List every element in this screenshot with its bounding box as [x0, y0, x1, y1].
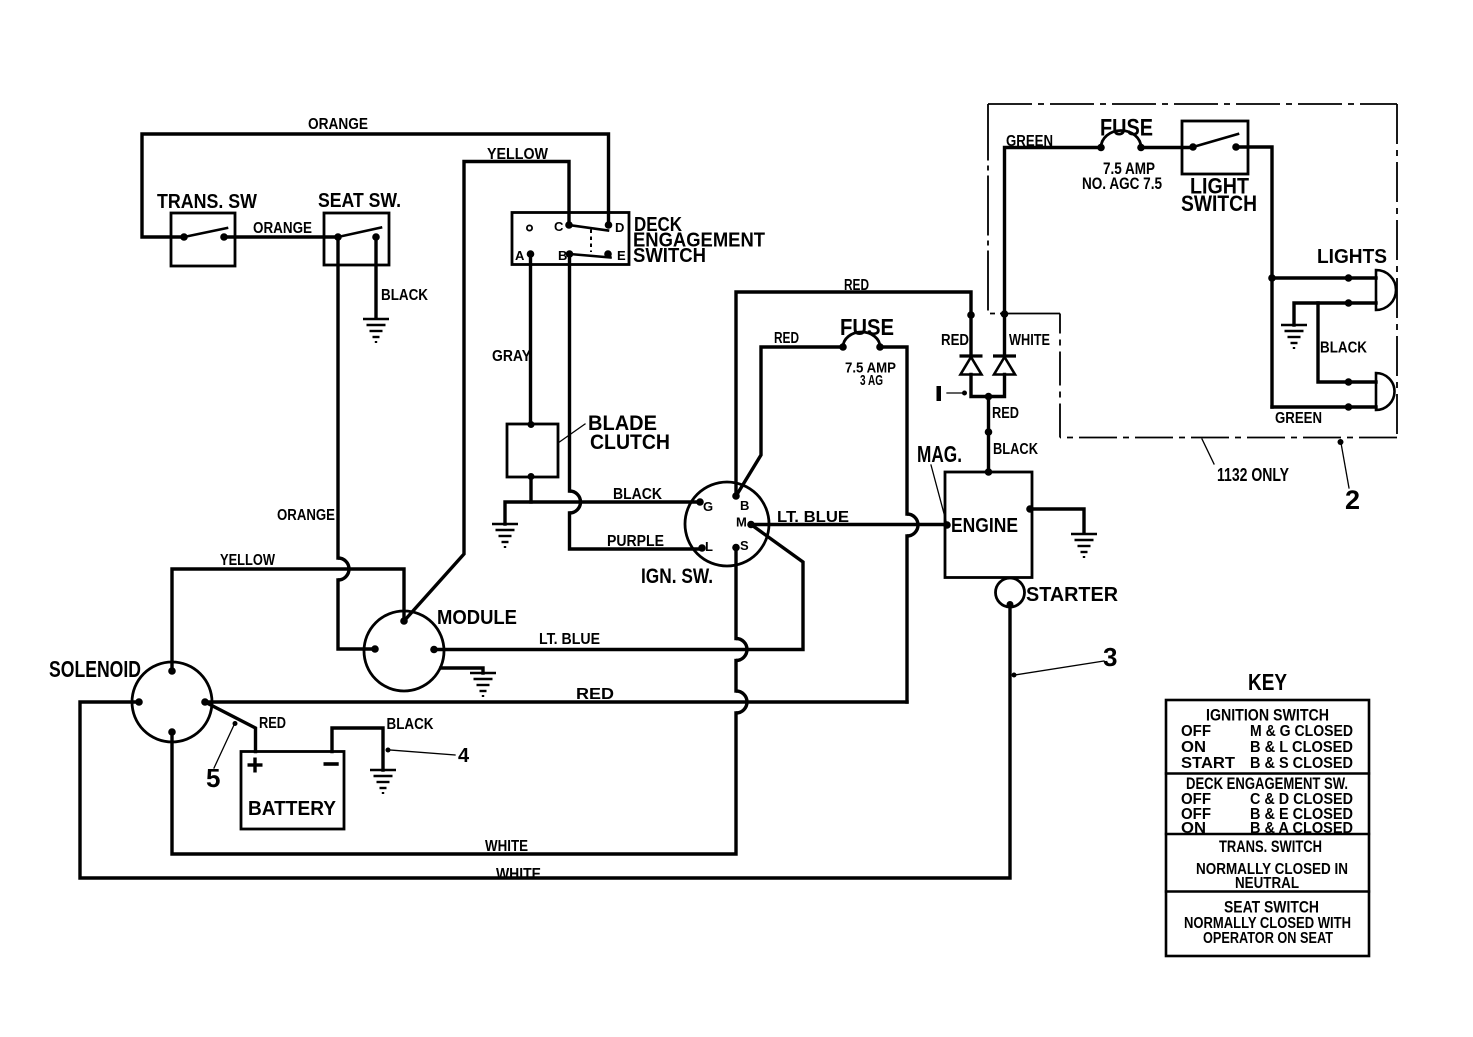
wire LT. BLUE (module right to ign M via corner) [434, 525, 803, 650]
solenoid terminal dots [168, 667, 176, 675]
svg-text:4: 4 [458, 745, 470, 767]
svg-text:BLACK: BLACK [993, 441, 1038, 458]
svg-text:RED: RED [774, 330, 799, 347]
battery minus sign [324, 762, 339, 766]
svg-text:S: S [740, 538, 749, 553]
svg-text:GRAY: GRAY [492, 348, 531, 365]
wire LT. BLUE (ign M to engine) [751, 523, 945, 526]
trans switch terminal dots [180, 233, 188, 241]
wire ORANGE top (deck D to trans switch) [142, 134, 609, 237]
switch TRANS. SW box [171, 213, 235, 266]
svg-text:SWITCH: SWITCH [1181, 191, 1257, 216]
svg-text:M & G CLOSED: M & G CLOSED [1250, 723, 1353, 740]
lamp 2 (headlight) [1376, 373, 1395, 410]
ground (battery) [370, 770, 396, 793]
pointer I with leader [937, 386, 942, 401]
junction dot green/white at boundary [1001, 310, 1009, 318]
ground (blade clutch) [492, 524, 518, 547]
ground (engine) [1071, 534, 1097, 557]
wire fuse right lead down to red feed wire [880, 347, 907, 514]
svg-text:YELLOW: YELLOW [220, 552, 276, 569]
wire diode outputs joined [971, 375, 1005, 397]
svg-text:BLACK: BLACK [387, 716, 434, 733]
svg-text:STARTER: STARTER [1026, 584, 1119, 606]
switch DECK ENGAGEMENT SWITCH box [512, 213, 629, 265]
light switch arm [1193, 134, 1238, 147]
deck switch arm B-E [570, 254, 611, 258]
ignition switch circle [685, 482, 769, 566]
module ground wire [441, 668, 483, 673]
svg-text:B: B [558, 248, 567, 263]
ground (module) [470, 673, 496, 696]
dash-dot boundary box 1132 ONLY [988, 103, 1397, 105]
seat switch terminal dots [334, 233, 342, 241]
svg-text:WHITE: WHITE [496, 866, 541, 883]
svg-text:M: M [736, 515, 747, 530]
blade clutch box [507, 424, 558, 477]
svg-text:RED: RED [259, 715, 286, 732]
engine ground wire [1032, 509, 1084, 533]
svg-text:LT. BLUE: LT. BLUE [777, 509, 849, 526]
svg-text:LT. BLUE: LT. BLUE [539, 631, 600, 648]
svg-text:MODULE: MODULE [437, 607, 517, 629]
svg-text:SWITCH: SWITCH [633, 245, 706, 267]
svg-text:YELLOW: YELLOW [487, 146, 549, 163]
svg-text:B & S CLOSED: B & S CLOSED [1250, 755, 1353, 772]
svg-text:WHITE: WHITE [485, 838, 528, 855]
svg-text:SOLENOID: SOLENOID [49, 656, 141, 682]
wire YELLOW (solenoid top to module top) [172, 569, 404, 671]
ign switch terminal dots G B M L S [696, 498, 704, 506]
lamp 1 (headlight) [1376, 270, 1396, 310]
svg-text:SEAT SWITCH: SEAT SWITCH [1224, 898, 1319, 917]
junction dot on red diode wire [967, 311, 975, 319]
wire GRAY (deck A to blade clutch) [529, 254, 532, 424]
svg-text:BATTERY: BATTERY [248, 798, 337, 820]
svg-text:START: START [1181, 755, 1235, 772]
battery box [241, 752, 344, 830]
light switch box [1182, 121, 1248, 174]
svg-text:TRANS. SW: TRANS. SW [157, 191, 257, 213]
svg-text:ORANGE: ORANGE [308, 116, 368, 133]
wire light switch to lights junction [1236, 147, 1272, 407]
svg-text:FUSE: FUSE [1100, 115, 1153, 142]
ground (seat switch) [363, 319, 389, 342]
wire lights ground branch [1294, 303, 1318, 325]
svg-text:TRANS. SWITCH: TRANS. SWITCH [1219, 837, 1322, 856]
svg-text:3 AG: 3 AG [860, 372, 883, 389]
key table box [1166, 700, 1369, 956]
starter circle [996, 578, 1025, 607]
engine box [945, 472, 1032, 578]
wire BLACK (ign G to ground) [505, 502, 700, 524]
svg-text:B & L CLOSED: B & L CLOSED [1250, 739, 1353, 756]
junction dot diode output [985, 393, 993, 401]
svg-text:GREEN: GREEN [1275, 410, 1322, 427]
svg-text:ENGINE: ENGINE [951, 515, 1018, 537]
svg-text:B & A CLOSED: B & A CLOSED [1250, 820, 1353, 837]
solenoid circle [132, 662, 212, 742]
fuse 7.5A 3AG symbol [843, 332, 880, 347]
wire fuse left lead to ign B (diagonal) [736, 347, 843, 496]
wire fuse to light switch [1141, 146, 1193, 149]
svg-text:RED: RED [941, 332, 969, 349]
module terminal dots [400, 617, 408, 625]
svg-text:3: 3 [1103, 642, 1117, 672]
wire RED (solenoid to fuse feed) [205, 700, 907, 703]
seat switch arm [338, 228, 381, 238]
deck switch arm C-D [569, 225, 608, 231]
key table row separators [1166, 772, 1369, 774]
svg-text:CLUTCH: CLUTCH [590, 431, 670, 454]
svg-text:5: 5 [206, 763, 220, 793]
junction dot red-black [985, 428, 993, 436]
svg-text:MAG.: MAG. [917, 441, 962, 467]
leader line to blade clutch [558, 424, 585, 443]
wire BLACK seat switch to ground [374, 237, 377, 318]
wire ORANGE (seat switch down to module left) with hop over yellow [336, 237, 339, 558]
engine terminal dots [985, 468, 993, 476]
svg-text:C: C [554, 219, 564, 234]
svg-text:G: G [703, 499, 713, 514]
module circle [364, 611, 444, 691]
svg-text:ORANGE: ORANGE [253, 220, 312, 237]
junction dot lights feed [1268, 274, 1276, 282]
svg-text:WHITE: WHITE [1009, 332, 1050, 349]
blade clutch terminal dots [528, 421, 535, 428]
svg-text:LIGHTS: LIGHTS [1317, 246, 1387, 268]
wire RED/BLACK down to engine mag [987, 397, 990, 473]
svg-text:PURPLE: PURPLE [607, 533, 664, 550]
svg-text:RED: RED [992, 405, 1019, 422]
svg-text:E: E [617, 248, 626, 263]
svg-text:A: A [515, 248, 525, 263]
wire PURPLE (deck B down to ign switch L) with hop over black wire [568, 254, 571, 491]
deck switch dashed mechanical link [590, 230, 592, 253]
wire blade clutch bottom stub [529, 477, 532, 503]
wire RED (ign B up and over to diodes) [736, 292, 971, 496]
svg-text:2: 2 [1345, 485, 1360, 515]
switch SEAT SW box [324, 213, 389, 265]
diode RED [960, 356, 983, 375]
trans switch arm [184, 228, 227, 237]
svg-text:OPERATOR ON SEAT: OPERATOR ON SEAT [1203, 930, 1333, 947]
svg-text:IGN. SW.: IGN. SW. [641, 565, 713, 588]
wire solenoid to battery plus (diagonal) [205, 702, 256, 752]
svg-text:BLACK: BLACK [381, 287, 428, 304]
light switch terminal dots [1189, 143, 1197, 151]
deck switch terminal dots C D A B E [565, 221, 573, 229]
svg-text:FUSE: FUSE [840, 314, 894, 340]
svg-text:RED: RED [576, 686, 614, 703]
ground (lights) [1281, 325, 1307, 348]
wire GREEN lamp 2 bottom [1272, 405, 1376, 408]
svg-text:NO. AGC 7.5: NO. AGC 7.5 [1082, 174, 1162, 193]
wire ORANGE (trans to seat switch) [224, 235, 338, 238]
svg-text:RED: RED [844, 277, 869, 294]
wire to lamp 1 top [1272, 276, 1376, 279]
wire WHITE (starter down, around bottom to solenoid) [80, 605, 1010, 878]
svg-text:IGNITION SWITCH: IGNITION SWITCH [1206, 706, 1329, 725]
svg-text:1132 ONLY: 1132 ONLY [1217, 465, 1289, 485]
deck switch unused terminal (small circle) [527, 225, 532, 230]
svg-text:ON: ON [1181, 739, 1206, 756]
svg-text:ORANGE: ORANGE [277, 507, 335, 524]
svg-text:ON: ON [1181, 820, 1206, 837]
battery plus sign [248, 758, 263, 773]
starter terminal dot [1007, 601, 1014, 608]
fuse (lights) symbol [1101, 131, 1141, 148]
wire GREEN (to light fuse) [1005, 148, 1102, 357]
svg-text:KEY: KEY [1248, 669, 1287, 695]
wire lamp 1 return / black to ground [1318, 303, 1376, 382]
svg-text:SEAT SW.: SEAT SW. [318, 190, 401, 212]
svg-text:BLACK: BLACK [1320, 340, 1367, 357]
svg-text:BLACK: BLACK [613, 486, 662, 503]
diode WHITE [993, 356, 1016, 375]
svg-text:NEUTRAL: NEUTRAL [1235, 875, 1299, 892]
svg-text:D: D [615, 220, 624, 235]
svg-text:B: B [740, 498, 749, 513]
svg-text:OFF: OFF [1181, 723, 1211, 740]
svg-text:L: L [705, 539, 713, 554]
wire ign S down to white wire, hops over lt blue and red [734, 548, 737, 639]
wire YELLOW (deck C down-left to module) [404, 162, 569, 622]
wire BLACK battery negative to ground [332, 728, 383, 770]
svg-text:GREEN: GREEN [1006, 133, 1053, 150]
